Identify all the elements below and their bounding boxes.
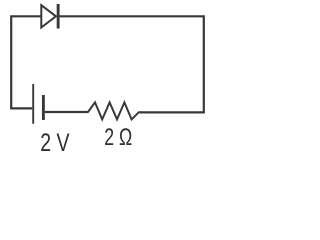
battery B1 short thick plate [42,95,45,120]
resistor R1 [88,102,141,119]
wire: top-right segment, right side, bottom-right run to resistor [60,16,204,112]
wire: top-left segment, left side, bottom-left run to battery [11,16,41,108]
battery B1 long plate [32,84,34,124]
svg-text:2 V: 2 V [40,130,70,157]
diode D1 [41,4,59,29]
svg-text:2 Ω: 2 Ω [104,124,132,151]
wire: battery to resistor [45,111,89,113]
